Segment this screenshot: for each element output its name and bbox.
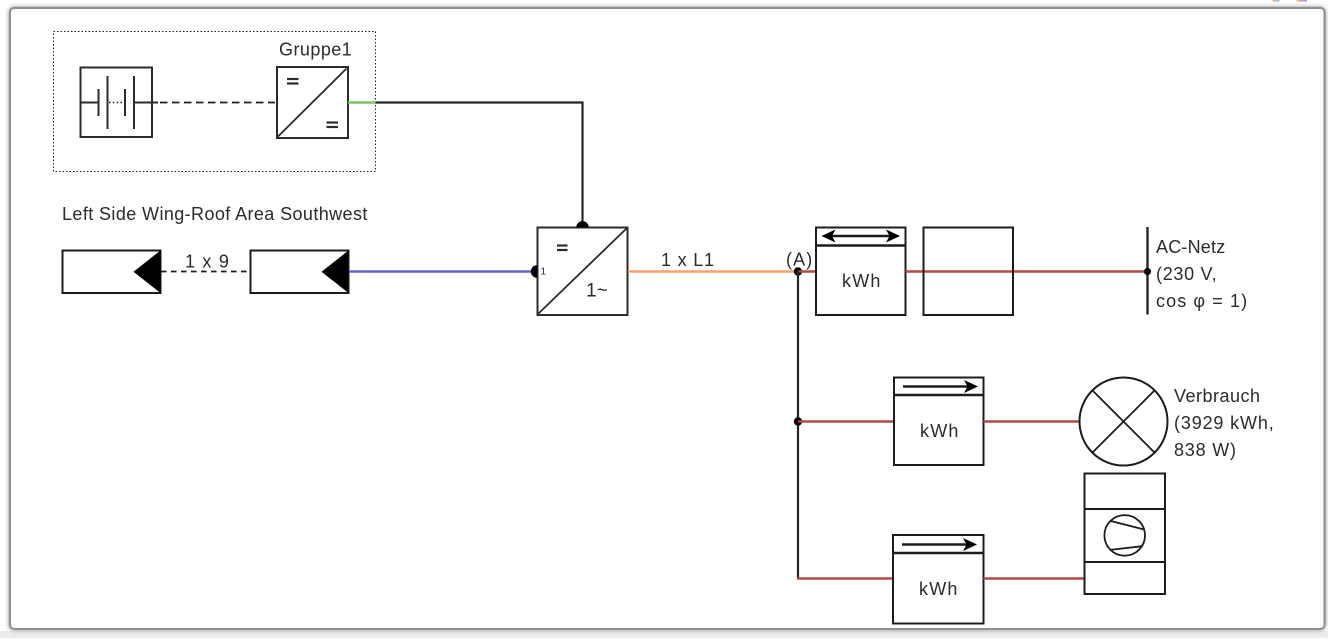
svg-text:Left Side Wing-Roof Area South: Left Side Wing-Roof Area Southwest	[62, 204, 368, 224]
svg-text:1 x 9: 1 x 9	[185, 252, 230, 272]
grid AC-Netz busbar	[1146, 227, 1148, 315]
wire corner to kWh meter 3 (red)	[797, 577, 893, 579]
kWh meter 1 (bidirectional, grid feed)	[816, 228, 906, 316]
svg-text:Verbrauch: Verbrauch	[1174, 386, 1261, 406]
empty device box on grid line	[924, 228, 1014, 316]
node dot on inverter DC input	[531, 265, 537, 278]
wire green to inverter (black, horizontal then down)	[376, 103, 583, 227]
svg-text:kWh: kWh	[842, 271, 882, 291]
inverter U1 (1~)	[538, 228, 628, 316]
wire battery to converter (dashed)	[160, 102, 275, 104]
svg-text:cos φ = 1): cos φ = 1)	[1156, 291, 1248, 311]
wire module chain (dashed) with label 1 x 9	[161, 271, 250, 273]
svg-text:AC-Netz: AC-Netz	[1156, 237, 1225, 257]
wire junction to kWh meter 2 (red)	[798, 420, 894, 422]
label Verbrauch	[1174, 386, 1275, 460]
svg-text:838 W): 838 W)	[1174, 440, 1237, 460]
toolbar icon fragment 2 (top edge, clipped)	[1297, 0, 1308, 2]
dashed group boundary box (battery group)	[54, 32, 376, 172]
svg-text:1~: 1~	[586, 281, 608, 302]
svg-text:(A): (A)	[786, 250, 813, 270]
svg-text:(3929 kWh,: (3929 kWh,	[1174, 413, 1275, 433]
toolbar icon fragment 1 (top edge, clipped)	[1273, 0, 1280, 2]
svg-text:Gruppe1: Gruppe1	[279, 40, 352, 60]
wire kWh meter 1 to grid (red, passes through device box)	[906, 270, 1148, 272]
wire kWh meter 2 to lamp (red)	[984, 420, 1081, 422]
node dot on busbar	[1144, 268, 1151, 275]
kWh meter 3 (appliance)	[893, 535, 984, 624]
kWh meter 2 (consumption)	[894, 378, 984, 466]
appliance (compressor device)	[1085, 474, 1166, 595]
wire kWh meter 3 to appliance (red)	[984, 577, 1085, 579]
wire node A to kWh meter 1 (red)	[798, 270, 816, 272]
wire node A down to lower branches (black)	[797, 272, 799, 579]
svg-text:1: 1	[541, 267, 547, 278]
svg-text:1 x L1: 1 x L1	[661, 250, 715, 270]
lamp / load symbol	[1080, 378, 1168, 466]
label AC-Netz	[1156, 237, 1248, 311]
pv module M1	[63, 251, 161, 294]
pv module M2	[251, 251, 349, 294]
dc-dc converter Gruppe1	[277, 67, 348, 138]
node dot on inverter top (battery feed)	[576, 221, 589, 227]
battery B1	[81, 68, 159, 138]
svg-text:(230 V,: (230 V,	[1156, 264, 1217, 284]
junction node (consumption branch)	[794, 417, 802, 425]
svg-text:kWh: kWh	[920, 421, 960, 441]
wire converter output (green segment)	[348, 101, 376, 104]
svg-text:kWh: kWh	[919, 579, 959, 599]
grey strip below panel	[0, 631, 1328, 638]
wire inverter AC output (orange) with label 1 x L1	[628, 270, 798, 273]
wire PV string to inverter (blue DC)	[349, 270, 532, 273]
